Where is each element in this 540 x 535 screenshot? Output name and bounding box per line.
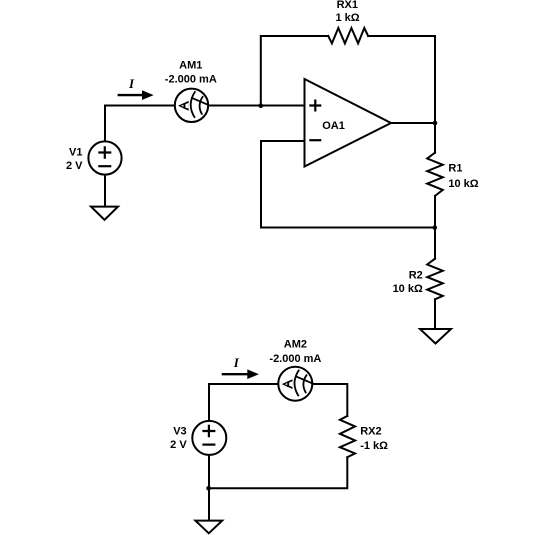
- svg-text:RX2: RX2: [360, 426, 381, 438]
- svg-text:1 kΩ: 1 kΩ: [335, 12, 359, 24]
- svg-text:R2: R2: [409, 270, 423, 282]
- svg-text:I: I: [233, 355, 240, 370]
- svg-text:V3: V3: [173, 426, 186, 438]
- svg-text:V1: V1: [69, 147, 82, 159]
- svg-text:OA1: OA1: [322, 120, 345, 132]
- svg-text:AM2: AM2: [284, 339, 307, 351]
- svg-text:-1 kΩ: -1 kΩ: [360, 440, 388, 452]
- svg-text:AM1: AM1: [179, 59, 202, 71]
- svg-text:I: I: [128, 76, 135, 91]
- svg-text:RX1: RX1: [337, 0, 358, 11]
- svg-text:R1: R1: [448, 162, 462, 174]
- svg-text:10 kΩ: 10 kΩ: [448, 178, 478, 190]
- svg-text:2 V: 2 V: [170, 439, 187, 451]
- svg-text:-2.000 mA: -2.000 mA: [165, 74, 217, 86]
- svg-text:-2.000 mA: -2.000 mA: [269, 353, 321, 365]
- svg-text:2 V: 2 V: [66, 160, 83, 172]
- svg-text:10 kΩ: 10 kΩ: [393, 283, 423, 295]
